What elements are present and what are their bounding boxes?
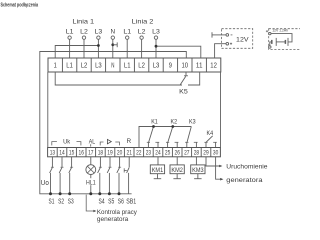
svg-text:N: N xyxy=(111,63,114,70)
12V power supply (dashed box) xyxy=(222,29,253,49)
svg-text:9: 9 xyxy=(169,63,172,70)
junction dot S6 xyxy=(118,192,121,195)
svg-text:S4: S4 xyxy=(99,198,105,205)
svg-text:L3: L3 xyxy=(152,28,160,35)
coil KM2 return stub with bar xyxy=(176,174,178,179)
svg-text:30: 30 xyxy=(213,150,219,157)
junction dot on N wire xyxy=(111,43,114,46)
svg-text:Linia 2: Linia 2 xyxy=(132,19,154,26)
plus mark battery xyxy=(266,30,268,32)
relay contact K1 xyxy=(147,142,149,147)
switch S3 (terminal 15) xyxy=(71,157,73,167)
svg-text:L2: L2 xyxy=(81,63,88,70)
wire supply top terminal stub with end bar xyxy=(212,34,226,36)
svg-text:Linia 1: Linia 1 xyxy=(72,19,94,26)
device outline right edge xyxy=(220,72,222,148)
battery cells xyxy=(287,38,289,46)
switch K5 common stub from terminal 10 xyxy=(185,72,187,76)
svg-text:20: 20 xyxy=(117,150,123,157)
svg-text:10: 10 xyxy=(182,63,189,70)
switch S6 (terminal 20) xyxy=(119,157,121,167)
svg-text:24: 24 xyxy=(155,150,161,157)
svg-text:K5: K5 xyxy=(179,89,188,96)
svg-text:21: 21 xyxy=(127,150,133,157)
svg-text:S6: S6 xyxy=(118,198,124,205)
wire terminal 28 to coil KM3 xyxy=(195,157,197,165)
svg-text:KM1: KM1 xyxy=(152,168,164,174)
coil KM1 return stub with bar xyxy=(156,174,158,179)
device outline left edge xyxy=(47,72,49,148)
svg-text:16: 16 xyxy=(79,150,85,157)
wire xyxy=(141,39,143,58)
bracket with buzzer symbol (terminals 18-20) xyxy=(100,142,103,145)
svg-text:25: 25 xyxy=(165,150,171,157)
terminal strip top (1,L1,L2,L3,N,L1,L2,L3,9,10,11,12) xyxy=(48,58,221,72)
svg-text:generatora: generatora xyxy=(226,177,263,184)
svg-text:1: 1 xyxy=(54,63,57,70)
svg-text:14: 14 xyxy=(59,150,65,157)
svg-text:S2: S2 xyxy=(58,198,64,205)
svg-text:R: R xyxy=(127,138,132,145)
switch S1 (terminal 13) xyxy=(51,157,53,167)
svg-text:K3: K3 xyxy=(189,120,196,126)
wire supply bottom terminal to terminal 12 xyxy=(215,44,226,58)
wire xyxy=(69,39,71,58)
wire xyxy=(126,39,128,58)
junction dot HL1 xyxy=(89,192,92,195)
svg-text:L1: L1 xyxy=(123,28,131,35)
contactor coil KM1 xyxy=(150,165,164,174)
svg-text:22: 22 xyxy=(136,150,142,157)
junction dot S5 xyxy=(108,192,111,195)
svg-text:12: 12 xyxy=(210,63,217,70)
junction dot K2 xyxy=(171,125,174,128)
supply terminal (bottom) xyxy=(226,42,229,45)
svg-text:Uo: Uo xyxy=(41,178,49,187)
battery terminal top xyxy=(269,32,271,34)
switch S2 (terminal 14) xyxy=(61,157,63,167)
pointer to Kontrola pracy generatora xyxy=(86,195,93,211)
junction dot S1 xyxy=(49,192,52,195)
wire terminal 29 to start arrow xyxy=(206,157,219,166)
svg-text:KM3: KM3 xyxy=(192,168,204,174)
svg-text:12V 1,2Ah: 12V 1,2Ah xyxy=(272,29,288,33)
wire L3 Linia2 to terminal 11 xyxy=(156,46,201,58)
relay contact K2 xyxy=(167,142,169,147)
svg-text:L2: L2 xyxy=(138,63,145,70)
svg-text:Uruchomienie: Uruchomienie xyxy=(226,163,268,170)
coil KM3 return stub with bar xyxy=(197,174,199,179)
wire Uo: terminal 10 around left side to bottom common bus xyxy=(40,52,187,194)
junction dot S2 xyxy=(59,192,62,195)
wire terminal 1 down to K5 throw (left) xyxy=(55,72,182,85)
svg-text:L3: L3 xyxy=(95,28,103,35)
wire xyxy=(112,39,114,58)
svg-text:L1: L1 xyxy=(66,63,73,70)
junction dot S3 xyxy=(68,192,71,195)
svg-text:15: 15 xyxy=(69,150,75,157)
svg-text:11: 11 xyxy=(196,63,203,70)
wire xyxy=(97,39,99,58)
svg-text:L3: L3 xyxy=(153,63,160,70)
svg-text:S3: S3 xyxy=(68,198,74,205)
supply terminal + (top) xyxy=(226,34,229,37)
svg-text:19: 19 xyxy=(107,150,113,157)
plus mark xyxy=(230,43,232,45)
tick under AL xyxy=(90,144,92,146)
switch S5 (terminal 19) xyxy=(109,157,111,167)
svg-text:Uk: Uk xyxy=(63,139,71,146)
svg-text:26: 26 xyxy=(175,150,181,157)
wire battery bottom xyxy=(270,42,272,46)
svg-text:L3: L3 xyxy=(95,63,102,70)
svg-text:K2: K2 xyxy=(171,120,178,126)
battery terminal bottom xyxy=(269,46,271,48)
buzzer triangle symbol xyxy=(107,139,111,143)
svg-text:KM2: KM2 xyxy=(171,168,183,174)
wire terminal 26 to coil KM2 xyxy=(176,157,178,165)
svg-text:29: 29 xyxy=(203,150,209,157)
svg-text:13: 13 xyxy=(50,150,56,157)
push button SB1 (terminal 21) xyxy=(128,157,130,167)
svg-text:S5: S5 xyxy=(108,198,114,205)
svg-text:28: 28 xyxy=(194,150,200,157)
svg-text:Schemat podłączenia: Schemat podłączenia xyxy=(1,2,39,8)
contactor coil KM2 xyxy=(170,165,184,174)
svg-text:generatora: generatora xyxy=(97,216,129,223)
relay contact K3 xyxy=(186,142,188,147)
svg-text:12V: 12V xyxy=(236,37,249,44)
svg-text:SB1: SB1 xyxy=(126,198,136,205)
wire xyxy=(83,39,85,58)
relay contact K4 (terminals 29-30) xyxy=(205,142,207,147)
svg-text:17: 17 xyxy=(88,150,94,157)
junction dot on L3 Linia2 xyxy=(155,45,158,48)
contactor coil KM3 xyxy=(191,165,205,174)
svg-text:AL: AL xyxy=(89,139,96,146)
svg-text:L1: L1 xyxy=(66,28,74,35)
lamp HL1 (terminal 17) xyxy=(90,157,92,165)
svg-text:N: N xyxy=(111,28,116,35)
battery 12V 1,2Ah (dashed box, clipped at right edge) xyxy=(269,29,310,50)
wire terminal 30 to start arrow xyxy=(216,157,221,179)
switch K5 blade xyxy=(180,76,186,84)
svg-text:L2: L2 xyxy=(80,28,88,35)
svg-text:HL1: HL1 xyxy=(86,179,96,186)
svg-text:23: 23 xyxy=(146,150,152,157)
junction dot on L3 Linia1 xyxy=(97,44,100,47)
svg-text:S1: S1 xyxy=(49,198,55,205)
bracket Uk (terminals 13-16) xyxy=(52,142,57,146)
wire terminal 11 down to K5 throw (right) xyxy=(188,72,200,85)
stub from N with end bar xyxy=(113,44,117,46)
junction dot K1 xyxy=(152,125,155,128)
wire battery top xyxy=(271,34,292,42)
wire bus from terminal 22 to relay contacts xyxy=(139,127,191,148)
svg-text:Kontrola pracy: Kontrola pracy xyxy=(97,209,138,216)
SB1 actuator xyxy=(123,168,125,172)
junction dot S4 xyxy=(98,192,101,195)
svg-text:18: 18 xyxy=(98,150,104,157)
svg-text:27: 27 xyxy=(184,150,190,157)
wire terminal 24 to coil KM1 xyxy=(157,157,159,165)
switch S4 (terminal 18) xyxy=(99,157,101,167)
svg-text:K4: K4 xyxy=(207,131,214,137)
wire terminal1 to L3 of Linia1 xyxy=(55,46,98,59)
svg-text:L1: L1 xyxy=(124,63,131,70)
svg-text:K1: K1 xyxy=(151,120,158,126)
wire xyxy=(155,39,157,58)
label HL1 xyxy=(85,178,97,185)
minus mark xyxy=(231,34,233,36)
svg-text:L2: L2 xyxy=(138,28,146,35)
terminal strip bottom (13..30) xyxy=(48,148,221,157)
